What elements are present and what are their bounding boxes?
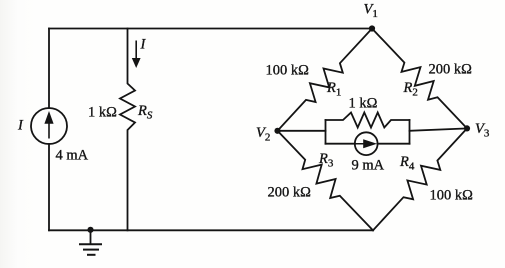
parallel block left edge — [325, 120, 327, 144]
current source I (4 mA) circle — [31, 108, 67, 144]
svg-text:V2: V2 — [256, 125, 270, 144]
resistor R3 (200 kOhm) arm V2-bottom — [278, 131, 374, 231]
4 mA source arrow (up) — [48, 123, 50, 139]
wire: left rail lower segment — [48, 144, 50, 230]
svg-text:100 kΩ: 100 kΩ — [266, 63, 310, 79]
svg-text:V1: V1 — [364, 2, 378, 21]
block bottom edge left part — [326, 143, 355, 145]
parallel block right edge — [409, 120, 411, 144]
9 mA source arrow (right) — [355, 143, 364, 145]
wire: bottom rail to diamond bottom vertex — [49, 229, 373, 231]
current source 9 mA circle — [355, 132, 378, 155]
wire: top rail from left corner to node V1 — [49, 28, 372, 30]
wire: left rail upper segment — [48, 29, 50, 109]
svg-text:200 kΩ: 200 kΩ — [268, 185, 312, 201]
node V1 dot — [369, 25, 375, 31]
node V2 dot — [274, 128, 280, 134]
wire: parallel block right to V3 — [410, 128, 468, 130]
svg-text:1 kΩ: 1 kΩ — [349, 96, 378, 112]
wire: V2 to parallel block left — [278, 130, 326, 132]
resistor R1 (100 kOhm) arm V2-V1 — [278, 29, 373, 131]
ground node dot — [87, 227, 93, 233]
resistor Rs branch (1 kOhm) — [120, 29, 135, 231]
svg-text:R1: R1 — [326, 80, 341, 99]
svg-text:9 mA: 9 mA — [352, 158, 385, 174]
svg-text:R3: R3 — [318, 151, 334, 170]
ground bar 1 — [79, 243, 102, 245]
svg-text:R4: R4 — [399, 154, 415, 173]
ground stub wire — [90, 230, 92, 243]
ground bar 2 — [83, 249, 99, 251]
svg-text:1 kΩ: 1 kΩ — [88, 105, 117, 121]
ground bar 3 — [87, 254, 96, 256]
resistor R2 (200 kOhm) arm V1-V3 — [372, 29, 467, 129]
resistor R4 (100 kOhm) arm bottom-V3 — [373, 128, 467, 230]
branch current arrow I (down) — [135, 41, 137, 61]
svg-text:RS: RS — [137, 103, 153, 122]
svg-text:200 kΩ: 200 kΩ — [429, 62, 473, 78]
block bottom edge right part — [378, 143, 410, 145]
svg-text:I: I — [17, 118, 24, 134]
resistor 1 kOhm (top edge of block) — [326, 113, 410, 128]
svg-text:V3: V3 — [475, 121, 490, 140]
svg-text:I: I — [140, 37, 147, 53]
svg-text:100 kΩ: 100 kΩ — [430, 188, 474, 204]
svg-text:4 mA: 4 mA — [56, 148, 89, 164]
node V3 dot — [464, 125, 470, 131]
